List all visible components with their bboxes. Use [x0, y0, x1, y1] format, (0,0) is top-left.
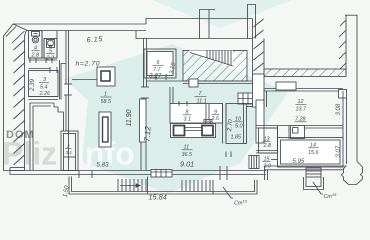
- dimension texts: [29, 34, 342, 206]
- porch divider: [147, 177, 149, 195]
- svg-text:3.08: 3.08: [336, 103, 342, 115]
- pier B: [99, 112, 111, 147]
- watermark cyan triangle top: [152, 0, 292, 28]
- door room1 left ticks: [64, 83, 72, 85]
- room 4 box: [29, 31, 43, 59]
- svg-text:3.0: 3.0: [264, 164, 272, 170]
- room 6 bottom door ticks: [155, 74, 157, 80]
- sink room5: [47, 40, 55, 48]
- toilet cistern: [32, 32, 40, 37]
- leader h=2.70: [72, 79, 97, 81]
- bottom wall left section: [10, 170, 266, 172]
- stairwell block hatched: [183, 51, 247, 82]
- watermark cyan central diamond: [64, 44, 288, 193]
- svg-text:Pliz: Pliz: [2, 136, 57, 172]
- room 13 bottom wall: [256, 150, 278, 152]
- columns C and D frame: [171, 124, 216, 138]
- svg-text:3: 3: [43, 77, 46, 83]
- svg-text:15.6: 15.6: [308, 150, 319, 156]
- porch steps comb 1: [117, 179, 119, 192]
- stair 15 box: [249, 156, 259, 169]
- lobby walls under rooms 4/5: [29, 57, 58, 59]
- svg-text:15.84: 15.84: [149, 193, 167, 202]
- leader st16: [313, 182, 323, 194]
- svg-text:7.12: 7.12: [143, 125, 153, 142]
- door jambs to porch1: [78, 171, 80, 179]
- leader st15: [223, 187, 233, 198]
- svg-text:3.27: 3.27: [149, 73, 162, 80]
- top-right wall cap: [345, 14, 358, 16]
- stove room 9: [204, 120, 212, 129]
- room 3 box: [29, 71, 59, 97]
- chimney block E: [291, 126, 305, 139]
- svg-text:13.7: 13.7: [296, 107, 307, 113]
- corridor-room8 wall: [169, 87, 171, 104]
- left wall face ticks: [6, 27, 16, 37]
- room 1 left wall: [65, 31, 67, 64]
- room 10 box: [226, 104, 247, 144]
- stair arrow porch1: [120, 185, 140, 187]
- lobby door ticks: [29, 58, 31, 63]
- room8 door ticks: [178, 101, 180, 106]
- courtyard right wall: [345, 15, 347, 74]
- wall under room 3: [29, 96, 59, 98]
- wall room12 bottom: [256, 125, 291, 127]
- svg-text:9.01: 9.01: [180, 160, 194, 169]
- porch steps comb 2 (st15): [181, 180, 183, 192]
- svg-text:3.1: 3.1: [184, 117, 192, 123]
- svg-text:1: 1: [104, 92, 107, 98]
- svg-text:5.83: 5.83: [97, 162, 110, 169]
- room 12 top inner wall: [264, 88, 343, 90]
- svg-text:2.26: 2.26: [39, 91, 51, 97]
- courtyard east face ticks: [254, 19, 264, 27]
- window W1: [151, 170, 172, 178]
- svg-text:3.07: 3.07: [336, 145, 342, 157]
- svg-text:5.95: 5.95: [293, 159, 305, 165]
- toilet bowl: [32, 37, 38, 43]
- svg-text:3.1: 3.1: [66, 150, 73, 155]
- chimney C2: [248, 5, 256, 39]
- lower-left room: [30, 103, 64, 171]
- narrow room 2: [61, 131, 78, 171]
- bottom wall jog: [264, 166, 266, 180]
- svg-text:2.8: 2.8: [263, 143, 272, 149]
- divider inside room 2: [64, 156, 76, 158]
- door ticks pier top: [141, 86, 149, 88]
- porch bottom outline: [69, 177, 257, 195]
- svg-text:36.5: 36.5: [182, 152, 193, 158]
- porch st16 landing border: [304, 177, 324, 190]
- stairwell treads wedge: [189, 51, 233, 67]
- svg-text:2.2: 2.2: [46, 56, 55, 62]
- courtyard west face ticks on right wall: [340, 20, 346, 26]
- wall step to upper section: [146, 19, 253, 25]
- svg-text:1.85: 1.85: [231, 135, 242, 141]
- door ticks room 11 right: [225, 152, 227, 158]
- wall top-left band: [13, 23, 146, 25]
- room 8 box: [170, 104, 223, 124]
- svg-text:6.15: 6.15: [86, 34, 103, 44]
- bottom wall right section: [265, 165, 347, 167]
- corridor pier right: [253, 74, 265, 107]
- svg-text:2.6: 2.6: [211, 116, 220, 122]
- outer wall left band: [4, 24, 27, 171]
- column A: [97, 67, 115, 86]
- svg-text:5.4: 5.4: [40, 85, 48, 91]
- room 14 box: [278, 138, 344, 168]
- wall under stairwell: [147, 80, 253, 82]
- rooms 8/9 divider: [205, 104, 207, 120]
- svg-text:11.1: 11.1: [197, 99, 207, 105]
- svg-text:h=2.70: h=2.70: [76, 61, 101, 68]
- niche on room12 top: [276, 82, 296, 90]
- chimney C1: [200, 10, 216, 39]
- stairwell east wall facing courtyard: [252, 19, 254, 77]
- room 6 box: [144, 49, 176, 78]
- svg-text:2.39: 2.39: [29, 78, 36, 92]
- corridor top wall to pier: [247, 103, 257, 105]
- bottom-right bay pier: [342, 162, 363, 185]
- room 5 box: [44, 39, 57, 59]
- vent grid box: [238, 93, 258, 104]
- room 13 box: [259, 128, 278, 153]
- stairwell block underlay: [183, 51, 247, 82]
- beam between columns: [185, 127, 203, 129]
- courtyard floor hatched band: [264, 69, 346, 77]
- room 12 right wall: [342, 91, 344, 140]
- room 4/5 divider: [41, 31, 43, 59]
- svg-text:2: 2: [66, 144, 70, 149]
- wall thickening left of room1: [61, 64, 66, 100]
- svg-text:58.5: 58.5: [101, 99, 112, 105]
- leader 15: [271, 159, 278, 161]
- column D: [202, 126, 213, 136]
- niche room12 top right: [339, 90, 347, 99]
- door under stairwell: [189, 79, 198, 87]
- room 9 right wall / room10 left: [222, 104, 224, 144]
- porch st16 steps: [306, 168, 321, 187]
- corridor wall right of rooms 4/5/3: [56, 31, 58, 59]
- svg-text:11.90: 11.90: [126, 109, 133, 126]
- svg-text:5.0: 5.0: [235, 124, 243, 130]
- door 12-14 jambs: [277, 126, 279, 140]
- room 1 / room 11 divider pier: [140, 99, 147, 142]
- column C: [174, 126, 185, 136]
- door jambs to st15: [219, 166, 221, 180]
- svg-text:2.8: 2.8: [31, 53, 40, 59]
- exterior right wall: [356, 15, 358, 161]
- room 3 top door ticks: [49, 67, 51, 73]
- room 12 left wall: [263, 89, 265, 108]
